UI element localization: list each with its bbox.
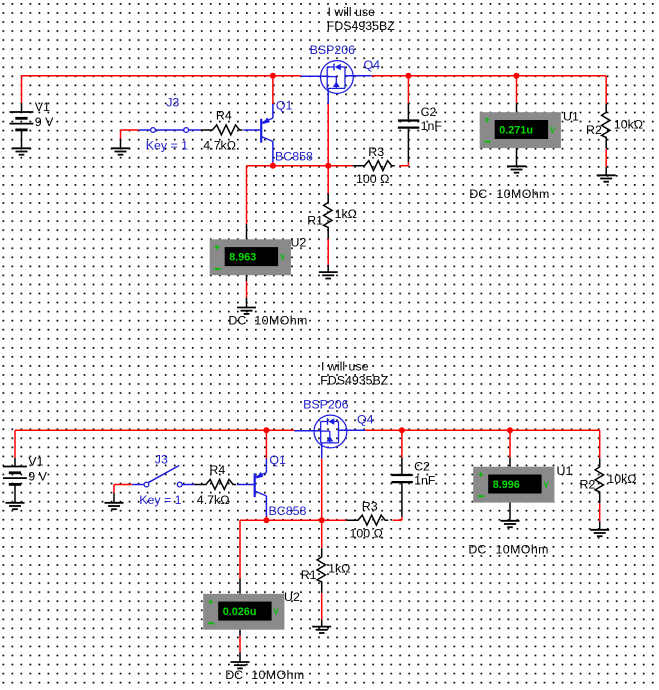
wire R1 to ground <box>321 520 323 626</box>
wire J3 ground stub <box>121 130 139 148</box>
wire C2 bottom lead <box>407 129 409 166</box>
capacitor C2 <box>391 475 412 482</box>
resistor R2 <box>602 104 610 149</box>
svg-text:4.7kΩ: 4.7kΩ <box>197 493 230 507</box>
svg-text:10MOhm: 10MOhm <box>496 543 549 557</box>
wire node row (U2 corner to R3) <box>240 519 347 521</box>
svg-text:9 V: 9 V <box>28 470 47 484</box>
label Q1 <box>276 98 293 112</box>
node R1 top junction <box>319 517 325 523</box>
label U2 DC <box>228 313 246 327</box>
ground battery <box>12 148 31 154</box>
svg-text:U1: U1 <box>563 110 579 124</box>
label 9 V <box>35 115 54 129</box>
label 1k&#937; <box>328 562 350 576</box>
ground battery <box>6 503 25 509</box>
svg-text:FDS4935BZ: FDS4935BZ <box>320 374 389 388</box>
wire rail corner to R2 <box>599 430 601 458</box>
svg-text:+: + <box>484 116 490 127</box>
label R3 <box>368 145 384 159</box>
svg-text:V: V <box>550 126 556 135</box>
svg-text:U2: U2 <box>291 235 307 249</box>
wire rail to U1 plus <box>516 76 518 112</box>
wire node to U2 plus <box>246 166 248 240</box>
label Q4 <box>357 413 374 427</box>
wire Q1 collector to node <box>265 496 267 520</box>
svg-text:U2: U2 <box>284 590 300 604</box>
resistor R1 <box>317 548 325 593</box>
svg-text:U1: U1 <box>557 464 573 478</box>
MOSFET Q4 (BSP206) <box>314 415 347 448</box>
svg-text:DC: DC <box>469 187 487 201</box>
svg-text:10MOhm: 10MOhm <box>254 313 307 327</box>
wire R2 to ground <box>605 149 607 176</box>
svg-text:Key = 1: Key = 1 <box>146 139 188 153</box>
wire node row (R3 right lead to C2 corner) <box>393 519 402 521</box>
battery V1 <box>10 103 34 148</box>
resistor R4 <box>201 125 243 135</box>
svg-text:R3: R3 <box>368 145 384 159</box>
resistor R2 <box>595 458 603 503</box>
svg-text:DC: DC <box>225 668 243 682</box>
wire battery to rail <box>21 76 23 103</box>
svg-text:10kΩ: 10kΩ <box>607 472 636 486</box>
label C2 <box>421 105 437 119</box>
label BSP206 <box>310 43 356 57</box>
label FDS4935BZ <box>327 19 396 33</box>
svg-text:FDS4935BZ: FDS4935BZ <box>327 19 396 33</box>
wire +9V rail (MOSFET to R2) <box>345 75 606 77</box>
transistor Q1 (BC858 PNP) <box>261 117 273 142</box>
svg-text:BC858: BC858 <box>269 504 307 518</box>
svg-text:Key = 1: Key = 1 <box>139 493 181 507</box>
node U1 plus junction <box>507 427 513 433</box>
svg-text:0.026u: 0.026u <box>223 606 257 618</box>
svg-text:DC: DC <box>468 543 486 557</box>
ground U2 <box>237 308 256 314</box>
svg-text:1kΩ: 1kΩ <box>335 207 357 221</box>
svg-text:C2: C2 <box>421 105 437 119</box>
label V1 <box>28 455 43 469</box>
label Q1 <box>269 453 286 467</box>
svg-text:100 Ω: 100 Ω <box>350 527 383 541</box>
label R4 <box>209 463 225 477</box>
label U2 10MOhm <box>251 668 304 682</box>
svg-text:Q1: Q1 <box>276 98 293 112</box>
wire +9V rail (MOSFET to R2) <box>338 429 599 431</box>
svg-text:+: + <box>208 597 214 608</box>
label R2 <box>586 123 602 137</box>
label 9 V <box>28 470 47 484</box>
label 1nF <box>414 474 436 488</box>
label 4.7k&#937; <box>203 139 236 153</box>
svg-text:V: V <box>274 608 280 617</box>
svg-text:BC858: BC858 <box>275 150 313 164</box>
svg-text:DC: DC <box>228 313 246 327</box>
svg-text:Q4: Q4 <box>357 413 374 427</box>
svg-text:J3: J3 <box>155 453 168 467</box>
svg-text:BSP206: BSP206 <box>310 43 356 57</box>
node Q1 emitter junction <box>270 73 276 79</box>
wire C2 top lead <box>407 76 409 120</box>
svg-text:9 V: 9 V <box>35 115 54 129</box>
label J3 <box>155 453 168 467</box>
label R1 <box>301 568 317 582</box>
svg-text:10kΩ: 10kΩ <box>614 118 643 132</box>
wire R2 to ground <box>599 503 601 530</box>
wire J3 ground stub <box>114 485 132 503</box>
ground U1 <box>501 521 520 527</box>
transistor Q1 (BC858 PNP) <box>255 472 267 497</box>
svg-text:0.271u: 0.271u <box>499 124 533 136</box>
label R4 <box>216 109 232 123</box>
wire Q1 emitter to rail <box>265 430 267 472</box>
svg-text:1nF: 1nF <box>414 474 436 488</box>
label BC858 <box>269 504 307 518</box>
label Q4 <box>364 58 381 72</box>
ground U2 <box>231 662 250 668</box>
label R3 <box>362 500 378 514</box>
ground J3 <box>105 503 124 509</box>
wire +9V rail (battery to MOSFET source) <box>15 429 294 431</box>
switch J3 <box>132 465 194 487</box>
wire U1 minus to ground <box>516 148 518 166</box>
multimeter U1 <box>480 110 579 149</box>
wire U2 minus to ground <box>239 630 241 662</box>
svg-text:V1: V1 <box>28 455 43 469</box>
label I will use <box>328 5 376 19</box>
node Q1 collector junction <box>270 163 276 169</box>
svg-text:1nF: 1nF <box>421 119 443 133</box>
multimeter U2 <box>210 235 307 275</box>
node U1 plus junction <box>514 73 520 79</box>
svg-text:1kΩ: 1kΩ <box>328 562 350 576</box>
wire +9V rail (battery to MOSFET source) <box>22 75 301 77</box>
svg-text:R1: R1 <box>307 214 323 228</box>
ground R2 <box>590 530 609 536</box>
wire MOSFET source pin <box>301 75 327 77</box>
svg-text:+: + <box>214 243 220 254</box>
ground U1 <box>507 166 526 172</box>
label FDS4935BZ <box>320 374 389 388</box>
node R1 top junction <box>325 163 331 169</box>
svg-text:V1: V1 <box>35 100 50 114</box>
label 100 &#937; <box>356 172 389 186</box>
svg-text:V: V <box>280 253 286 262</box>
svg-text:J3: J3 <box>166 96 179 110</box>
multimeter U2 <box>203 590 300 630</box>
top circuit <box>10 5 644 328</box>
svg-text:10MOhm: 10MOhm <box>496 187 549 201</box>
bottom circuit <box>3 359 637 682</box>
svg-text:I will use: I will use <box>321 359 369 373</box>
svg-text:10MOhm: 10MOhm <box>251 668 304 682</box>
wire node row (U2 corner to R3) <box>247 165 354 167</box>
wire R4 to Q1 base <box>243 129 260 131</box>
node Q1 emitter junction <box>263 427 269 433</box>
svg-text:R3: R3 <box>362 500 378 514</box>
svg-text:I will use: I will use <box>328 5 376 19</box>
battery V1 <box>3 458 27 503</box>
svg-text:Q4: Q4 <box>364 58 381 72</box>
svg-text:R2: R2 <box>586 123 602 137</box>
wire rail corner to R2 <box>605 76 607 104</box>
svg-text:4.7kΩ: 4.7kΩ <box>203 139 236 153</box>
resistor R1 <box>324 194 332 239</box>
svg-text:Q1: Q1 <box>269 453 286 467</box>
label BSP206 <box>303 398 349 412</box>
wire battery to rail <box>14 430 16 457</box>
label R2 <box>580 478 596 492</box>
label U1 10MOhm <box>496 543 549 557</box>
wire node to U2 plus <box>239 520 241 594</box>
label U2 10MOhm <box>254 313 307 327</box>
label I will use <box>321 359 369 373</box>
wire U1 minus to ground <box>509 503 511 521</box>
label J3 <box>166 96 179 110</box>
svg-text:BSP206: BSP206 <box>303 398 349 412</box>
label R1 <box>307 214 323 228</box>
wire C2 bottom lead <box>401 483 403 520</box>
wire MOSFET gate to node <box>327 88 329 165</box>
switch J3 <box>139 128 201 133</box>
wire MOSFET source pin <box>294 430 320 432</box>
svg-text:C2: C2 <box>414 460 430 474</box>
wire node row (R3 right lead to C2 corner) <box>399 165 408 167</box>
label V1 <box>35 100 50 114</box>
wire MOSFET gate to node <box>321 443 323 520</box>
label U1 DC <box>468 543 486 557</box>
label 1nF <box>421 119 443 133</box>
svg-text:R2: R2 <box>580 478 596 492</box>
label U2 DC <box>225 668 243 682</box>
wire C2 top lead <box>401 430 403 474</box>
label Key = 1 <box>139 493 181 507</box>
node C2 top junction <box>405 73 411 79</box>
wire rail to U1 plus <box>509 430 511 466</box>
svg-text:R1: R1 <box>301 568 317 582</box>
svg-text:V: V <box>544 480 550 489</box>
ground R2 <box>597 175 616 181</box>
ground R1 <box>312 627 331 633</box>
label BC858 <box>275 150 313 164</box>
node Q1 collector junction <box>263 517 269 523</box>
resistor R3 <box>353 161 395 171</box>
wire Q1 collector to node <box>272 141 274 165</box>
wire R4 to Q1 base <box>237 484 254 486</box>
wire U2 minus to ground <box>246 275 248 307</box>
wire R1 to ground <box>327 166 329 272</box>
svg-text:R4: R4 <box>216 109 232 123</box>
label 4.7k&#937; <box>197 493 230 507</box>
svg-text:+: + <box>478 470 484 481</box>
multimeter U1 <box>473 464 572 503</box>
wire Q1 emitter to rail <box>272 76 274 118</box>
label U1 DC <box>469 187 487 201</box>
ground J3 <box>111 148 130 154</box>
svg-text:100 Ω: 100 Ω <box>356 172 389 186</box>
label 100 &#937; <box>350 527 383 541</box>
ground R1 <box>319 272 338 278</box>
MOSFET Q4 (BSP206) <box>321 61 354 94</box>
svg-text:8.996: 8.996 <box>493 479 520 491</box>
label Key = 1 <box>146 139 188 153</box>
node C2 top junction <box>399 427 405 433</box>
resistor R3 <box>347 515 389 525</box>
resistor R4 <box>195 479 237 489</box>
label C2 <box>414 460 430 474</box>
label U1 10MOhm <box>496 187 549 201</box>
svg-text:R4: R4 <box>209 463 225 477</box>
label 10k&#937; <box>607 472 636 486</box>
label 1k&#937; <box>335 207 357 221</box>
capacitor C2 <box>398 121 419 128</box>
label 10k&#937; <box>614 118 643 132</box>
svg-text:8.963: 8.963 <box>229 252 256 264</box>
